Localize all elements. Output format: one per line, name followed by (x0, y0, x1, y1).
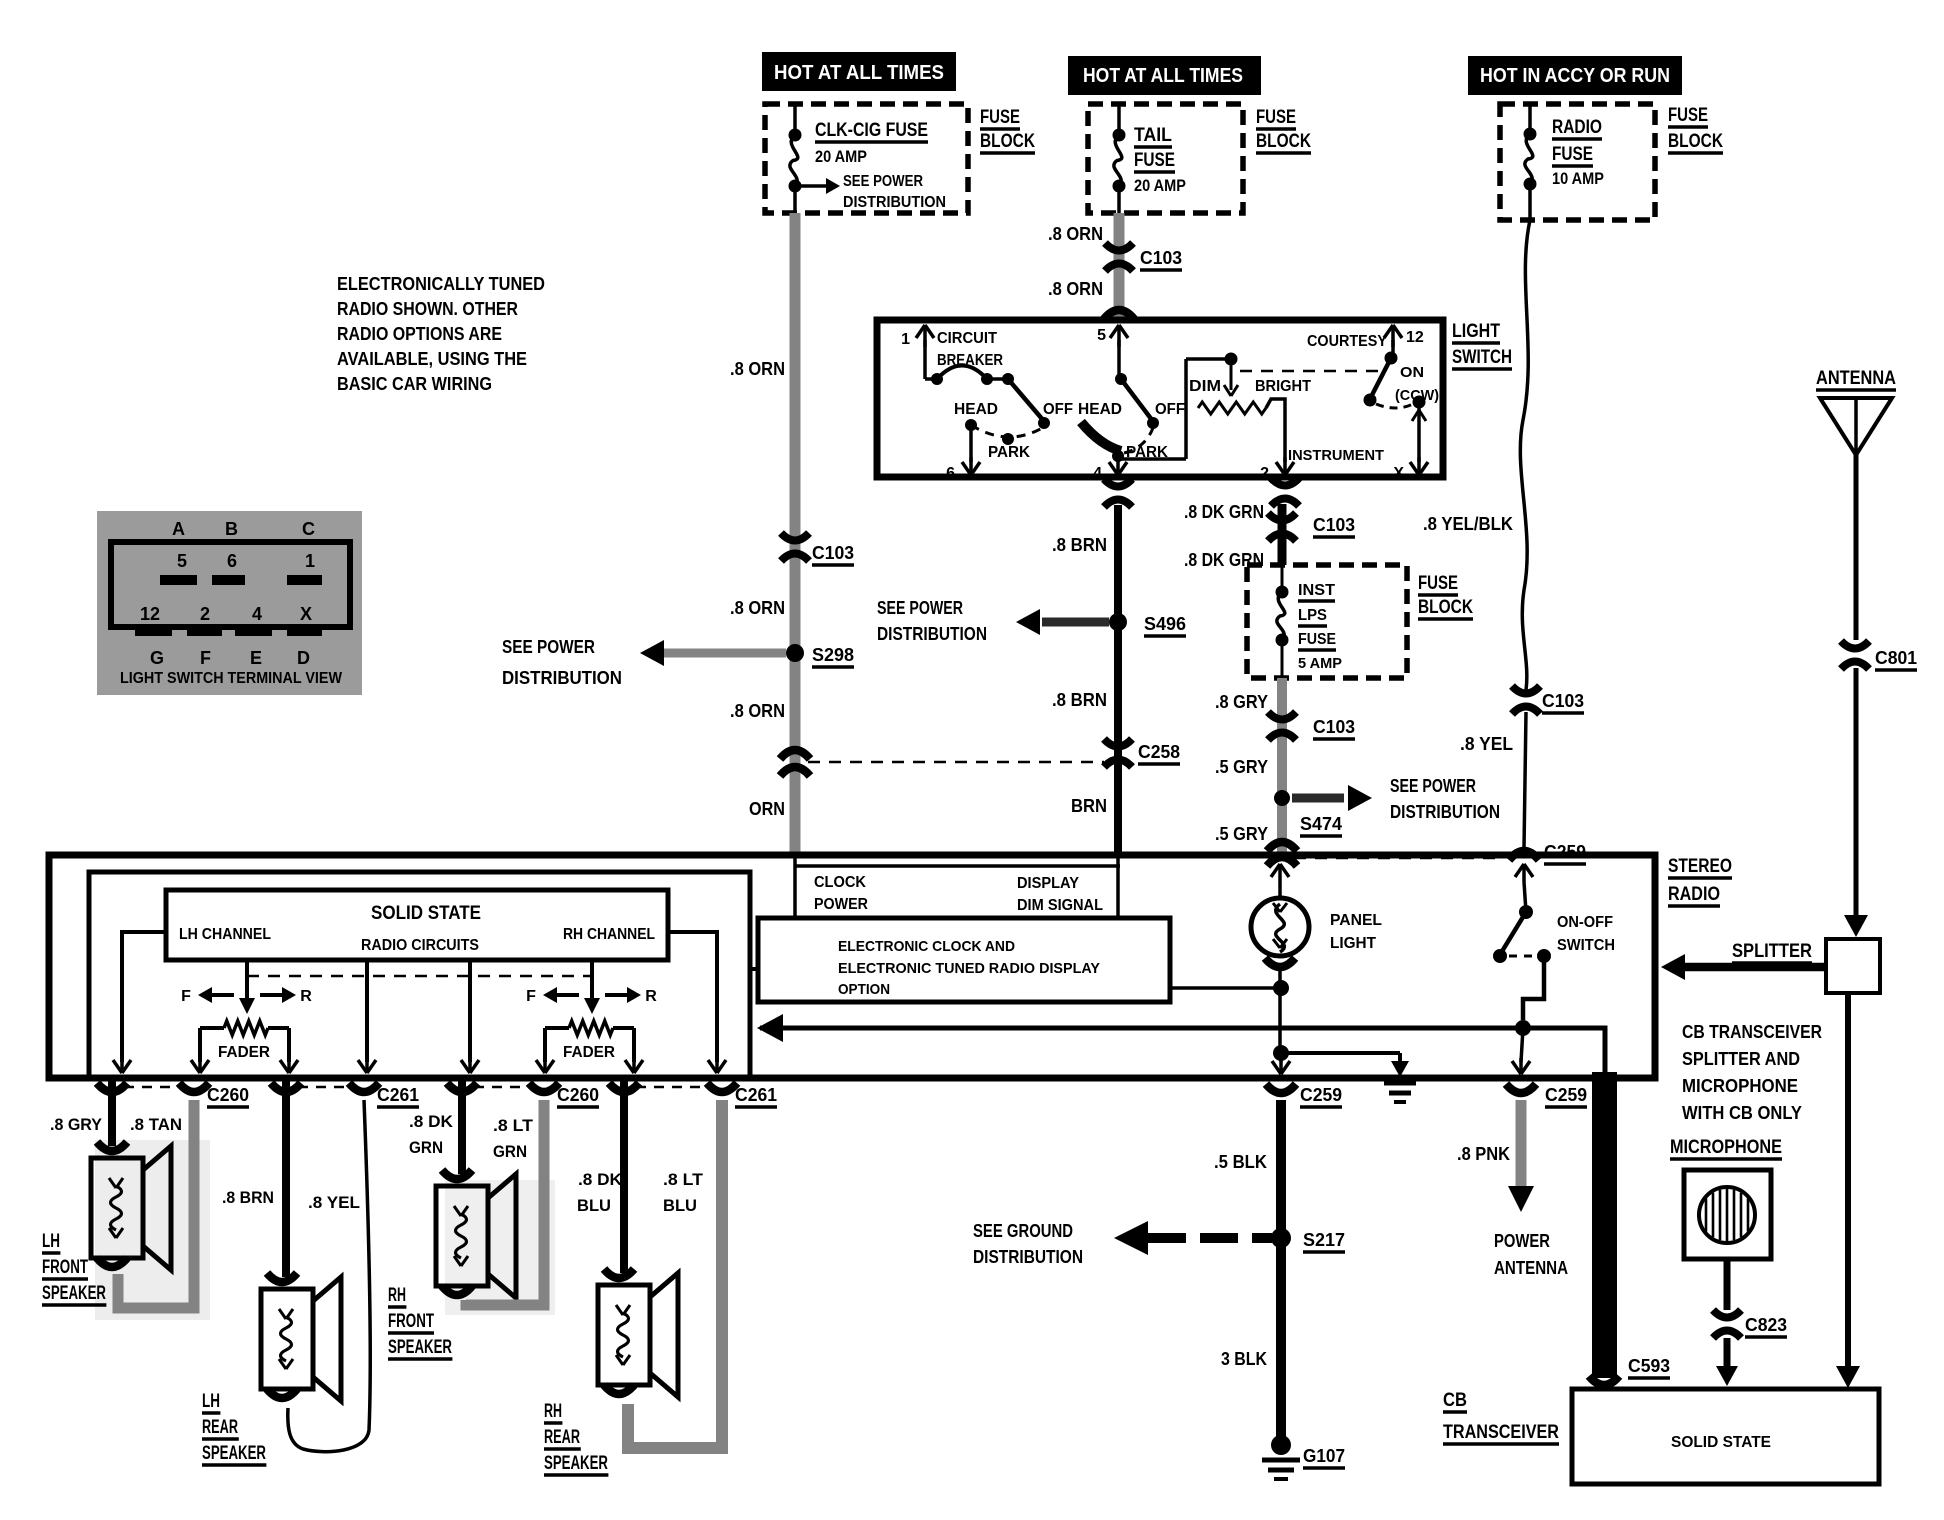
dashed connector line to C259 (1294, 857, 1504, 860)
svg-text:SPLITTER: SPLITTER (1732, 941, 1812, 962)
svg-text:RADIO OPTIONS ARE: RADIO OPTIONS ARE (337, 324, 502, 344)
connector C261 (RH rear) (609, 1083, 639, 1092)
svg-text:C593: C593 (1628, 1356, 1670, 1376)
svg-text:SPEAKER: SPEAKER (388, 1337, 452, 1358)
header HOT AT ALL TIMES (center) (1068, 56, 1261, 95)
wire .8 PNK to power antenna (1516, 1100, 1527, 1186)
connector C259 (on-off) (1506, 1084, 1536, 1093)
fuse INST LPS FUSE 5 AMP (1281, 565, 1284, 594)
scan shading behind LH front speaker (95, 1140, 210, 1320)
svg-text:ANTENNA: ANTENNA (1816, 368, 1896, 389)
svg-text:WITH CB ONLY: WITH CB ONLY (1682, 1103, 1802, 1123)
svg-text:INSTRUMENT: INSTRUMENT (1288, 447, 1384, 464)
wire .8 ORN from CLK-CIG fuse (790, 213, 801, 858)
wire .8 TAN (speckled) (118, 1100, 194, 1308)
LH fader feed (245, 960, 249, 1000)
connector C801 (1841, 641, 1869, 649)
svg-text:B: B (225, 519, 238, 539)
svg-text:C259: C259 (1300, 1085, 1342, 1105)
svg-text:SWITCH: SWITCH (1452, 347, 1512, 368)
light switch terminal view (gray panel) (97, 511, 362, 695)
svg-text:FADER: FADER (218, 1044, 270, 1061)
svg-text:.5 GRY: .5 GRY (1215, 824, 1268, 844)
wire .8 ORN from TAIL fuse (1114, 213, 1125, 320)
CLOCK POWER terminal (793, 858, 797, 918)
svg-text:.8 ORN: .8 ORN (730, 701, 785, 721)
fuse block CLK-CIG (dashed) (765, 104, 968, 213)
svg-text:.8 ORN: .8 ORN (1048, 224, 1103, 244)
svg-text:RADIO CIRCUITS: RADIO CIRCUITS (361, 937, 479, 954)
svg-text:20 AMP: 20 AMP (815, 147, 867, 166)
svg-text:MICROPHONE: MICROPHONE (1670, 1137, 1782, 1158)
svg-text:.8 DK: .8 DK (578, 1170, 623, 1189)
fader LH (224, 1021, 268, 1035)
wire .8 DK GRN upper (1278, 504, 1287, 565)
connector C103 on YEL wire (1512, 686, 1540, 694)
scan shading behind RH front speaker (445, 1180, 555, 1315)
svg-text:C103: C103 (1313, 515, 1355, 535)
connector below terminal 4 (1104, 479, 1132, 487)
on-off wire to C259 (1521, 1028, 1523, 1062)
svg-text:RADIO SHOWN. OTHER: RADIO SHOWN. OTHER (337, 299, 518, 319)
dashed connector line C258 (808, 761, 1104, 764)
header HOT IN ACCY OR RUN (1468, 56, 1682, 95)
svg-text:.8 BRN: .8 BRN (222, 1188, 274, 1207)
svg-text:SOLID STATE: SOLID STATE (371, 903, 481, 924)
svg-text:BLOCK: BLOCK (980, 131, 1035, 152)
svg-text:TRANSCEIVER: TRANSCEIVER (1443, 1422, 1559, 1443)
svg-text:BRIGHT: BRIGHT (1255, 378, 1311, 395)
svg-text:.8 LT: .8 LT (493, 1116, 534, 1135)
svg-text:S474: S474 (1300, 814, 1342, 834)
connector C103 on GRY wire (1268, 712, 1296, 720)
wire from clock box to panel light (1170, 986, 1275, 990)
circuit breaker (931, 373, 943, 385)
svg-text:HEAD: HEAD (954, 401, 998, 418)
svg-text:FUSE: FUSE (1418, 573, 1458, 594)
svg-text:.8 GRY: .8 GRY (50, 1115, 103, 1134)
svg-text:DISTRIBUTION: DISTRIBUTION (502, 668, 622, 688)
splice S496 (1109, 613, 1127, 631)
svg-text:F: F (200, 648, 211, 668)
wire to SEE POWER DISTRIBUTION (left) (664, 649, 786, 658)
HEAD contact and PARK arc (left) (965, 419, 977, 431)
svg-text:C103: C103 (1313, 717, 1355, 737)
svg-text:FUSE: FUSE (1256, 107, 1296, 128)
svg-text:CIRCUIT: CIRCUIT (937, 330, 997, 347)
svg-text:POWER: POWER (814, 896, 868, 913)
light switch box (877, 320, 1443, 477)
connector C260 (RH front) (447, 1083, 477, 1092)
svg-text:ANTENNA: ANTENNA (1494, 1258, 1568, 1278)
terminal 2 / INSTRUMENT (1266, 399, 1285, 462)
svg-text:BRN: BRN (1071, 796, 1107, 816)
svg-text:G107: G107 (1303, 1446, 1345, 1466)
svg-text:.8 LT: .8 LT (663, 1170, 704, 1189)
svg-text:RADIO: RADIO (1552, 117, 1602, 138)
RH channel output wire (668, 932, 717, 1062)
svg-text:OPTION: OPTION (838, 981, 890, 998)
svg-text:.8 ORN: .8 ORN (1048, 279, 1103, 299)
svg-text:ELECTRONICALLY TUNED: ELECTRONICALLY TUNED (337, 274, 545, 294)
dashed line under solid state box (247, 975, 592, 978)
wire to SEE POWER DISTRIBUTION (center) (1042, 618, 1109, 627)
svg-text:S298: S298 (812, 645, 854, 665)
svg-text:.8 ORN: .8 ORN (730, 598, 785, 618)
switch blade HEAD-OFF (right) (1115, 373, 1127, 385)
svg-text:ELECTRONIC CLOCK AND: ELECTRONIC CLOCK AND (838, 938, 1015, 955)
svg-text:RH: RH (544, 1401, 562, 1422)
terminal 6 (969, 425, 973, 462)
svg-text:.8 PNK: .8 PNK (1457, 1144, 1510, 1164)
svg-text:20 AMP: 20 AMP (1134, 176, 1186, 195)
svg-text:CB TRANSCEIVER: CB TRANSCEIVER (1682, 1022, 1822, 1042)
panel light wire to C259 (1279, 1053, 1283, 1062)
svg-text:LIGHT: LIGHT (1330, 935, 1376, 952)
on-off switch (1522, 864, 1526, 882)
wire .8 DK GRN to RH front speaker (458, 1078, 466, 1174)
svg-text:S217: S217 (1303, 1230, 1345, 1250)
solid state radio circuits box (166, 890, 668, 960)
svg-text:5: 5 (177, 551, 187, 571)
svg-text:SEE POWER: SEE POWER (1390, 776, 1476, 796)
fuse CLK-CIG FUSE 20 AMP (793, 104, 797, 137)
svg-text:.8 YEL: .8 YEL (1460, 734, 1513, 754)
svg-text:.8 BRN: .8 BRN (1052, 535, 1107, 555)
dashed line to courtesy switch (1240, 370, 1380, 373)
splitter box (1826, 939, 1880, 993)
svg-text:HOT IN ACCY OR RUN: HOT IN ACCY OR RUN (1480, 65, 1670, 87)
svg-text:C103: C103 (1140, 248, 1182, 268)
ground symbol (radio case) (1384, 1081, 1416, 1086)
svg-text:LH: LH (42, 1231, 60, 1252)
stereo radio inner box (89, 872, 750, 1075)
svg-text:FRONT: FRONT (42, 1257, 88, 1278)
fader RH (569, 1021, 613, 1035)
svg-text:.8 YEL/BLK: .8 YEL/BLK (1423, 514, 1513, 534)
svg-text:FUSE: FUSE (1134, 150, 1175, 171)
svg-text:2: 2 (1260, 465, 1269, 482)
svg-text:ELECTRONIC TUNED RADIO DISPLAY: ELECTRONIC TUNED RADIO DISPLAY (838, 960, 1100, 977)
svg-text:D: D (297, 648, 310, 668)
svg-text:C258: C258 (1138, 742, 1180, 762)
svg-text:CB: CB (1443, 1390, 1467, 1411)
svg-text:FUSE: FUSE (1298, 631, 1336, 648)
connector C823 (1713, 1310, 1741, 1318)
svg-text:DISTRIBUTION: DISTRIBUTION (1390, 802, 1500, 822)
svg-text:C260: C260 (557, 1085, 599, 1105)
wire splitter to CB transceiver (1845, 993, 1851, 1370)
svg-text:FRONT: FRONT (388, 1311, 434, 1332)
connector on ORN wire at C258 line (780, 750, 810, 759)
svg-text:OFF: OFF (1155, 401, 1185, 418)
svg-text:LH CHANNEL: LH CHANNEL (179, 926, 271, 943)
svg-text:5: 5 (1097, 327, 1106, 344)
connector below terminal 2 (1271, 478, 1299, 486)
LH front speaker (91, 1158, 143, 1258)
svg-text:C261: C261 (377, 1085, 419, 1105)
fuse RADIO FUSE 10 AMP (1528, 104, 1532, 136)
terminal 1 (923, 325, 927, 347)
svg-text:SEE GROUND: SEE GROUND (973, 1221, 1073, 1241)
wire .8 BRN to LH rear speaker (282, 1078, 290, 1277)
svg-text:AVAILABLE, USING THE: AVAILABLE, USING THE (337, 349, 527, 369)
svg-text:LPS: LPS (1298, 607, 1327, 624)
svg-text:GRN: GRN (493, 1142, 527, 1161)
LH channel output wire (122, 932, 166, 1062)
svg-text:BLOCK: BLOCK (1256, 131, 1311, 152)
terminal 4 (1116, 456, 1120, 462)
svg-text:6: 6 (946, 465, 955, 482)
svg-text:.8 ORN: .8 ORN (730, 359, 785, 379)
svg-text:BASIC CAR WIRING: BASIC CAR WIRING (337, 374, 492, 394)
antenna lead-in wire (1854, 455, 1859, 640)
svg-text:FUSE: FUSE (980, 107, 1020, 128)
svg-text:ON: ON (1400, 364, 1424, 381)
thick blade arc in PARK position (1081, 422, 1121, 451)
connector C260 (LH front) (97, 1083, 127, 1092)
splice S474 (1274, 790, 1290, 806)
svg-text:C103: C103 (812, 543, 854, 563)
panel light bulb (1278, 864, 1282, 882)
fuse block INST LPS (dashed) (1247, 565, 1407, 678)
splice S298 (786, 644, 804, 662)
svg-text:BLOCK: BLOCK (1668, 131, 1723, 152)
svg-text:BLU: BLU (663, 1196, 697, 1215)
svg-text:4: 4 (1093, 465, 1102, 482)
panel light ground wire (1278, 968, 1282, 1053)
wire .8 YEL (return) (288, 1100, 370, 1452)
svg-text:SOLID STATE: SOLID STATE (1671, 1434, 1771, 1451)
wire to SEE GROUND DISTRIBUTION (1148, 1233, 1272, 1243)
dimmer rheostat (1121, 457, 1186, 461)
svg-text:HEAD: HEAD (1078, 401, 1122, 418)
connector C103 on TAIL wire (1105, 243, 1133, 251)
svg-text:.8 BRN: .8 BRN (1052, 690, 1107, 710)
svg-text:C103: C103 (1542, 691, 1584, 711)
svg-text:S496: S496 (1144, 614, 1186, 634)
wire .8 GRY (1277, 678, 1287, 858)
svg-text:CLK-CIG FUSE: CLK-CIG FUSE (815, 120, 928, 141)
svg-text:CLOCK: CLOCK (814, 874, 866, 891)
svg-text:POWER: POWER (1494, 1231, 1550, 1251)
svg-text:3 BLK: 3 BLK (1221, 1349, 1267, 1369)
fuse TAIL FUSE 20 AMP (1117, 104, 1121, 137)
wire .8 LT BLU (speckled) (628, 1100, 722, 1448)
svg-text:STEREO: STEREO (1668, 856, 1732, 877)
svg-text:C: C (302, 519, 315, 539)
heavy wire to CB transceiver C593 (1592, 1072, 1617, 1378)
LH rear speaker (261, 1289, 313, 1389)
svg-text:SPEAKER: SPEAKER (42, 1283, 106, 1304)
svg-text:.8 TAN: .8 TAN (130, 1115, 182, 1134)
wire .8 GRY to LH front speaker (108, 1078, 116, 1146)
svg-text:10 AMP: 10 AMP (1552, 169, 1604, 188)
svg-text:.8 YEL: .8 YEL (308, 1193, 360, 1212)
svg-text:2: 2 (200, 604, 210, 624)
svg-text:ON-OFF: ON-OFF (1557, 914, 1613, 931)
svg-text:FUSE: FUSE (1668, 105, 1708, 126)
svg-text:.8 DK: .8 DK (409, 1112, 454, 1131)
svg-text:.5 GRY: .5 GRY (1215, 757, 1268, 777)
svg-text:COURTESY: COURTESY (1307, 333, 1387, 350)
RH front speaker (436, 1186, 488, 1286)
svg-text:SWITCH: SWITCH (1557, 937, 1615, 954)
svg-text:E: E (250, 648, 262, 668)
wire .5 BLK (1276, 1100, 1286, 1445)
svg-text:6: 6 (227, 551, 237, 571)
RH rear speaker (598, 1285, 650, 1385)
svg-text:C260: C260 (207, 1085, 249, 1105)
electronic clock box (758, 918, 1170, 1002)
wire .8 YEL/BLK from RADIO fuse (1520, 220, 1530, 690)
svg-text:1: 1 (305, 551, 315, 571)
svg-text:C259: C259 (1545, 1085, 1587, 1105)
microphone cable (1724, 1259, 1731, 1310)
svg-text:RADIO: RADIO (1668, 884, 1720, 905)
radio output wire 3 (365, 960, 369, 1062)
svg-text:DISPLAY: DISPLAY (1017, 875, 1079, 892)
svg-text:A: A (172, 519, 185, 539)
svg-text:LH: LH (202, 1391, 220, 1412)
svg-text:R: R (645, 988, 657, 1005)
svg-text:.5 BLK: .5 BLK (1214, 1152, 1267, 1172)
svg-text:OFF: OFF (1043, 401, 1073, 418)
ground G107 (1271, 1435, 1291, 1455)
connector C259 at radio box top (1509, 851, 1539, 860)
stereo radio box (49, 855, 1655, 1078)
svg-text:4: 4 (252, 604, 262, 624)
PARK contact (right) (1112, 450, 1124, 462)
svg-text:G: G (150, 648, 164, 668)
svg-text:ORN: ORN (749, 799, 785, 819)
svg-text:C823: C823 (1745, 1315, 1787, 1335)
svg-text:R: R (300, 988, 312, 1005)
svg-text:PANEL: PANEL (1330, 912, 1382, 929)
svg-text:FUSE: FUSE (1552, 144, 1593, 165)
radio output wire 4 (468, 960, 472, 1062)
svg-text:F: F (526, 988, 536, 1005)
connector C103 on ORN wire (781, 533, 809, 541)
svg-text:X: X (300, 604, 312, 624)
svg-text:12: 12 (1406, 329, 1424, 346)
bus wire to CB transceiver output (760, 1028, 1605, 1072)
svg-text:GRN: GRN (409, 1138, 443, 1157)
svg-text:C261: C261 (735, 1085, 777, 1105)
wire .8 BRN (1114, 505, 1122, 858)
svg-text:12: 12 (140, 604, 160, 624)
RH fader feed (590, 960, 594, 1000)
fuse block RADIO (dashed) (1500, 104, 1655, 220)
svg-text:C801: C801 (1875, 648, 1917, 668)
switch blade HEAD-OFF (left) (1008, 379, 1043, 420)
svg-text:SEE POWER: SEE POWER (843, 173, 923, 190)
connector C103 on DK GRN (1268, 513, 1296, 521)
svg-text:X: X (1393, 465, 1404, 482)
DISPLAY DIM SIGNAL terminal (1116, 858, 1120, 918)
svg-text:HOT AT ALL TIMES: HOT AT ALL TIMES (1083, 65, 1243, 87)
on-off switch output jog (1523, 956, 1544, 1020)
svg-text:SPLITTER AND: SPLITTER AND (1682, 1049, 1800, 1069)
fuse block TAIL (dashed) (1088, 104, 1243, 213)
terminal 5 (1117, 325, 1121, 347)
CB transceiver box (1572, 1389, 1879, 1484)
svg-text:DIM: DIM (1189, 378, 1221, 395)
svg-text:PARK: PARK (988, 444, 1030, 461)
svg-text:FADER: FADER (563, 1044, 615, 1061)
svg-text:RH CHANNEL: RH CHANNEL (563, 926, 655, 943)
svg-text:F: F (181, 988, 191, 1005)
svg-text:SPEAKER: SPEAKER (544, 1453, 608, 1474)
wire splitter to stereo radio (1684, 963, 1826, 972)
svg-text:SEE POWER: SEE POWER (877, 598, 963, 618)
svg-text:TAIL: TAIL (1134, 125, 1172, 146)
svg-text:INST: INST (1298, 582, 1335, 599)
svg-text:RH: RH (388, 1285, 406, 1306)
svg-text:MICROPHONE: MICROPHONE (1682, 1076, 1798, 1096)
header HOT AT ALL TIMES (left) (762, 52, 956, 91)
svg-text:5 AMP: 5 AMP (1298, 655, 1342, 672)
svg-text:REAR: REAR (202, 1417, 238, 1438)
connector C259 (panel light) (1266, 1084, 1296, 1093)
wire .8 LT GRN (speckled) (466, 1100, 544, 1305)
svg-text:BLU: BLU (577, 1196, 611, 1215)
svg-text:LIGHT SWITCH TERMINAL VIEW: LIGHT SWITCH TERMINAL VIEW (120, 670, 343, 687)
svg-text:SPEAKER: SPEAKER (202, 1443, 266, 1464)
svg-text:1: 1 (901, 331, 910, 348)
connector at radio box top (GRY) (1267, 842, 1297, 851)
svg-text:SEE POWER: SEE POWER (502, 637, 595, 657)
svg-text:.8 GRY: .8 GRY (1215, 692, 1268, 712)
wire .8 DK BLU to RH rear speaker (620, 1078, 628, 1273)
svg-text:DIM SIGNAL: DIM SIGNAL (1017, 897, 1103, 914)
connector C258 (1104, 739, 1132, 747)
svg-text:.8 DK GRN: .8 DK GRN (1184, 502, 1264, 522)
svg-text:DISTRIBUTION: DISTRIBUTION (877, 624, 987, 644)
svg-text:HOT AT ALL TIMES: HOT AT ALL TIMES (774, 62, 944, 84)
terminal X (1413, 396, 1426, 409)
svg-text:BLOCK: BLOCK (1418, 597, 1473, 618)
splice S217 (1271, 1228, 1291, 1248)
svg-text:DISTRIBUTION: DISTRIBUTION (973, 1247, 1083, 1267)
svg-text:DISTRIBUTION: DISTRIBUTION (843, 194, 946, 211)
svg-text:LIGHT: LIGHT (1452, 321, 1500, 342)
svg-text:REAR: REAR (544, 1427, 580, 1448)
wire to chassis ground (1281, 1051, 1400, 1055)
connector C261 (LH rear) (271, 1083, 301, 1092)
